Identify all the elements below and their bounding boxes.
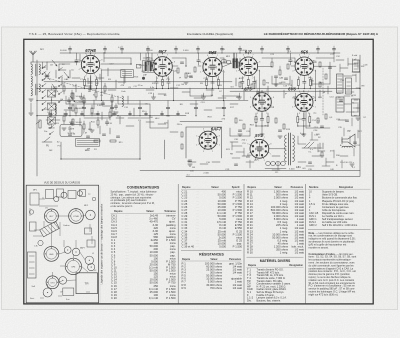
- wire x164 vertical: [164, 140, 166, 159]
- column rule 1: [177, 184, 179, 304]
- volume potentiometer: [36, 120, 41, 128]
- wire mid bus: [37, 115, 186, 117]
- mains switch: [302, 142, 316, 148]
- wire U7 down: [303, 111, 305, 118]
- left input extra parts: [29, 60, 122, 135]
- wire left rail: [36, 60, 38, 176]
- wire right rail: [359, 55, 361, 176]
- extra mesh segments: [56, 60, 360, 164]
- filter choke: [336, 97, 344, 112]
- wire top grid bus: [60, 52, 340, 54]
- wire dial box top: [180, 121, 222, 123]
- coil L3: [31, 88, 32, 96]
- cluster IF parts: [177, 62, 196, 84]
- wafer switch boxes: [48, 86, 83, 128]
- wire screen bus: [37, 100, 248, 102]
- IF transformer MF1: [136, 53, 154, 80]
- mains plug: [318, 143, 325, 151]
- left switch contacts: [42, 66, 63, 111]
- power area extras: [232, 132, 342, 171]
- coupling cluster U4-U5: [258, 58, 295, 86]
- tube U5 (6F6): [295, 56, 315, 76]
- tube U1 (6TH8): [81, 55, 101, 75]
- materiel separator: [247, 256, 304, 258]
- resistor block right: [352, 99, 360, 116]
- stage wiring drops: [29, 46, 368, 177]
- paper noise overlay: [0, 0, 1, 1]
- speaker HP: [342, 134, 355, 147]
- wire lower bus: [140, 170, 360, 172]
- coil L1: [31, 64, 32, 74]
- pilot lamp winding: [265, 161, 286, 168]
- wire B+ bus lower: [230, 90, 332, 92]
- tube U9 (5Y3): [249, 139, 269, 159]
- osc coil: [122, 96, 123, 106]
- ground ant: [29, 98, 33, 100]
- wire left loop: [61, 121, 140, 159]
- column rule 2: [243, 184, 245, 304]
- wires converter: [79, 54, 81, 62]
- tuning cap CV2: [52, 84, 58, 92]
- wire rect to transformer: [269, 148, 286, 150]
- resistances separator: [181, 249, 242, 251]
- wire transformer mains: [293, 157, 330, 159]
- column rule 3: [305, 184, 307, 304]
- dashed link: [322, 68, 324, 115]
- wire T2-T3: [172, 65, 178, 67]
- wire to output transformer: [314, 65, 337, 67]
- tube U2 (6K7): [152, 56, 173, 77]
- junction dots: [103, 52, 104, 53]
- tube U3 (6H8): [202, 57, 222, 77]
- cluster detector parts: [239, 80, 265, 93]
- osc coil can: [121, 70, 134, 78]
- second row drops: [255, 113, 257, 117]
- output transformer: [337, 74, 344, 93]
- power transformer TR: [285, 133, 295, 165]
- micro labels scatter: [44, 59, 368, 177]
- tuning cap CV1: [44, 72, 50, 80]
- wire AVC line: [44, 81, 232, 83]
- right column extras: [336, 55, 363, 169]
- wire ant down: [30, 62, 32, 64]
- cluster output parts: [319, 62, 332, 87]
- schematic border frame: [24, 39, 373, 304]
- wire U6 down: [261, 112, 263, 118]
- wire grid T1: [46, 62, 48, 70]
- cluster magic-eye parts: [181, 132, 192, 166]
- chassis inner parts: [28, 189, 98, 301]
- horizontal links mid: [104, 57, 131, 59]
- switch PU: [42, 137, 52, 142]
- screen bus drops: [69, 101, 71, 108]
- field coil: [342, 146, 352, 147]
- tube U6 (6T5): [252, 92, 272, 112]
- cluster converter parts: [62, 83, 118, 132]
- antenna: [30, 51, 37, 62]
- cluster AF parts: [235, 114, 327, 138]
- coil L2: [31, 76, 32, 86]
- wire B+ bus upper: [37, 88, 360, 90]
- padding coil: [55, 104, 56, 114]
- tube U4 (6J7): [238, 56, 258, 76]
- tube U7 (6V6): [294, 93, 313, 112]
- chassis layout box: [26, 185, 98, 303]
- value labels: [44, 47, 357, 169]
- pickup box: [60, 125, 82, 137]
- cluster tone parts: [68, 134, 119, 142]
- nota separator: [308, 228, 371, 230]
- trap box: [76, 139, 100, 147]
- mid bus components: [49, 112, 52, 114]
- IF transformer MF2: [222, 53, 242, 69]
- vertical links mid: [103, 54, 105, 62]
- dial escutcheon box: [186, 127, 222, 158]
- wire bottom bus: [186, 176, 360, 178]
- tube U8 (6AF7): [198, 131, 217, 150]
